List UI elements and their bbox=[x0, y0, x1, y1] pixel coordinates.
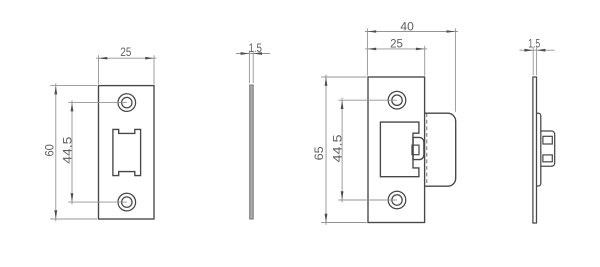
svg-text:40: 40 bbox=[400, 20, 414, 34]
svg-text:1.5: 1.5 bbox=[528, 36, 540, 50]
dimension D7 height 65 dimension line bbox=[325, 75, 327, 225]
dimension D4 arrow left outside bbox=[241, 52, 250, 55]
dimension D9 thickness 1.5 extension line right bbox=[536, 47, 538, 75]
dimension D2 height 60 extension line top bbox=[50, 85, 97, 87]
svg-text:25: 25 bbox=[120, 45, 131, 59]
svg-text:25: 25 bbox=[390, 36, 403, 50]
hole H2 bottom screw hole outer bbox=[118, 193, 136, 211]
aperture A1 latch cutout bbox=[113, 129, 141, 175]
dimension D3 arrow top bbox=[71, 103, 74, 112]
clip C1 upper slot bbox=[543, 136, 552, 144]
dimension D6 arrow right bbox=[416, 48, 425, 51]
dimension D2 height 60 dimension line bbox=[55, 83, 57, 221]
svg-text:65: 65 bbox=[312, 146, 326, 160]
dimension D3 holes 44.5 dimension line bbox=[71, 100, 73, 204]
box B1 dust box front profile bbox=[425, 113, 456, 186]
dimension D7 arrow top bbox=[325, 77, 328, 86]
dimension D9 arrow left outside bbox=[524, 49, 533, 52]
dimension D1 width 25 extension line left bbox=[98, 55, 100, 84]
dimension D2 height 60 extension line bottom bbox=[50, 218, 97, 220]
dimension D8 holes 44.5 extension line bottom bbox=[338, 199, 397, 201]
box B2 dust box side profile bbox=[537, 113, 541, 186]
dimension D4 thickness 1.5 dimension line bbox=[236, 53, 270, 55]
dimension D8 holes 44.5 extension line top bbox=[338, 99, 397, 101]
dimension D5 overall 40 dimension line bbox=[365, 31, 458, 33]
dimension D9 thickness 1.5 extension line left bbox=[532, 47, 534, 75]
aperture A2 strike cutout with stepped right edge bbox=[380, 122, 419, 177]
svg-text:44.5: 44.5 bbox=[61, 136, 75, 163]
dimension D1 width 25 extension line right bbox=[153, 55, 155, 84]
latchbolt L1 face rectangle bbox=[412, 145, 419, 155]
dimension D4 arrow right outside bbox=[253, 52, 262, 55]
svg-text:1.5: 1.5 bbox=[248, 41, 262, 55]
dimension D2 arrow top bbox=[54, 86, 57, 95]
hole H4 bottom screw hole outer bbox=[388, 191, 406, 209]
dimension D5 overall 40 extension line right bbox=[454, 28, 456, 111]
dimension D5 arrow right bbox=[447, 30, 456, 33]
dimension D3 holes 44.5 extension line top bbox=[68, 102, 127, 104]
dimension D1 width 25 dimension line bbox=[96, 57, 157, 59]
clip C1 lower slot bbox=[543, 155, 552, 162]
dimension D7 height 65 extension line bottom bbox=[321, 222, 366, 224]
dimension D9 arrow right outside bbox=[537, 49, 546, 52]
clip C1 outer profile bbox=[541, 131, 555, 166]
dimension D6 plate width 25 dimension line bbox=[365, 48, 427, 50]
svg-text:44.5: 44.5 bbox=[331, 134, 345, 162]
dimension D4 thickness 1.5 extension line left bbox=[248, 51, 250, 84]
hole H2 bottom screw hole inner bbox=[122, 197, 132, 207]
dimension D8 arrow bottom bbox=[341, 191, 344, 200]
plate P2 side profile bar bbox=[250, 85, 254, 219]
dimension D5 arrow left bbox=[367, 30, 376, 33]
dimension D1 arrow right bbox=[145, 57, 154, 60]
latchbolt L1 D-shaped bolt profile bbox=[413, 137, 424, 159]
dimension D5 overall 40 extension line left bbox=[366, 28, 368, 75]
hole H1 top screw hole outer bbox=[118, 94, 136, 112]
dimension D6 plate width 25 extension line right bbox=[424, 46, 426, 76]
dimension D9 thickness 1.5 dimension line bbox=[520, 49, 555, 51]
dimension D1 arrow left bbox=[99, 57, 108, 60]
plate P1 outline bbox=[99, 86, 155, 219]
hole H3 top screw hole inner bbox=[392, 95, 402, 105]
dimension D6 arrow left bbox=[367, 48, 376, 51]
svg-text:60: 60 bbox=[42, 144, 56, 156]
hole H3 top screw hole outer bbox=[388, 91, 406, 109]
hole H4 bottom screw hole inner bbox=[392, 195, 402, 205]
hidden edge dashed line behind plate bbox=[426, 113, 428, 186]
dimension D3 holes 44.5 extension line bottom bbox=[68, 201, 127, 203]
dimension D8 holes 44.5 dimension line bbox=[341, 98, 343, 203]
hole H1 top screw hole inner bbox=[122, 97, 132, 107]
plate P4 side profile bar bbox=[533, 77, 537, 223]
plate P3 outline bbox=[368, 77, 425, 223]
dimension D7 arrow bottom bbox=[325, 214, 328, 223]
dimension D7 height 65 extension line top bbox=[321, 76, 366, 78]
dimension D3 arrow bottom bbox=[71, 193, 74, 202]
dimension D4 thickness 1.5 extension line right bbox=[252, 51, 254, 84]
dimension D8 arrow top bbox=[341, 100, 344, 109]
dimension D2 arrow bottom bbox=[54, 210, 57, 219]
